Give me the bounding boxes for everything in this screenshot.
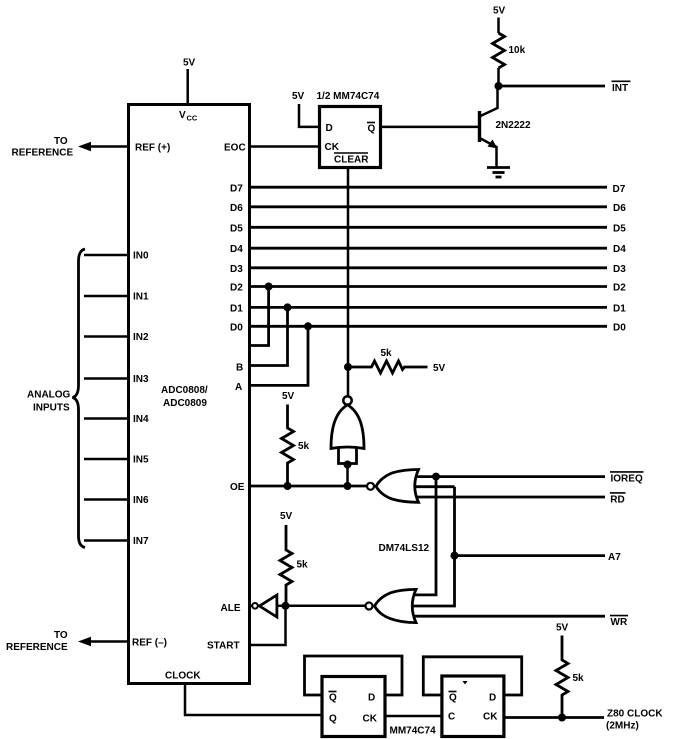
junction CLEAR pull-up node xyxy=(344,363,352,371)
wire data bus line D7 xyxy=(250,186,607,189)
svg-text:TO: TO xyxy=(54,630,68,641)
svg-text:D7: D7 xyxy=(230,184,243,195)
svg-text:REF (+): REF (+) xyxy=(135,143,170,154)
wire analog input IN3 xyxy=(84,377,129,380)
wire RD line xyxy=(412,496,605,499)
svg-text:Q: Q xyxy=(449,693,457,704)
svg-text:IN1: IN1 xyxy=(133,292,149,303)
svg-text:5k: 5k xyxy=(573,673,585,684)
resistor R5 5k (Z80 clock pull-up) xyxy=(556,636,584,718)
5V supply at VCC xyxy=(183,58,196,69)
svg-text:D6: D6 xyxy=(613,203,626,214)
wire analog input IN4 xyxy=(84,417,129,420)
svg-text:2N2222: 2N2222 xyxy=(496,120,531,131)
wire IOREQ down to gate U5 xyxy=(412,477,436,595)
svg-text:INT: INT xyxy=(612,83,628,94)
node label TO REFERENCE (top) xyxy=(12,136,74,159)
arrow to reference (top) xyxy=(78,142,91,151)
wire D1 to address pin B xyxy=(250,307,288,365)
ground at Q1 emitter xyxy=(487,168,510,178)
ADC U1 ADC0808/ADC0809 body xyxy=(129,105,250,684)
wire REF (+) to reference arrow xyxy=(89,145,129,148)
svg-text:Q: Q xyxy=(329,693,337,704)
wire 5V to VCC xyxy=(186,69,189,105)
wire U7 feedback Q-bar to D xyxy=(305,656,403,695)
junction A7 node xyxy=(451,552,459,560)
svg-text:5k: 5k xyxy=(297,560,309,571)
wire analog input IN1 xyxy=(84,295,129,298)
wire REF (-) to reference arrow xyxy=(89,640,129,643)
wire analog input IN5 xyxy=(84,458,129,461)
svg-text:IN4: IN4 xyxy=(133,414,149,425)
node label ANALOG INPUTS xyxy=(27,390,71,414)
wire Q-bar to transistor base xyxy=(381,126,479,129)
svg-text:REF (–): REF (–) xyxy=(132,638,167,649)
gate U4 DM74LS12 (OE decoder) xyxy=(367,470,419,503)
resistor R3 5k (OE pull-up) xyxy=(282,405,310,487)
clock edge mark (U8) xyxy=(463,681,468,685)
svg-text:5V: 5V xyxy=(556,623,569,634)
wire 5V to resistor R1 xyxy=(497,18,500,34)
svg-text:START: START xyxy=(207,641,240,652)
svg-text:D2: D2 xyxy=(613,283,626,294)
wire ALE node to START xyxy=(250,606,286,645)
transistor Q1 2N2222 xyxy=(480,86,531,167)
svg-text:5k: 5k xyxy=(298,441,310,452)
svg-text:C: C xyxy=(448,712,455,723)
pin label Q-bar (U7) xyxy=(329,692,338,704)
wire data bus line D1 xyxy=(250,306,607,309)
node label TO REFERENCE (bottom) xyxy=(6,630,68,653)
flip-flop U2 1/2 MM74C74 label xyxy=(292,91,380,102)
svg-text:D: D xyxy=(368,693,375,704)
net label IOREQ xyxy=(610,472,644,485)
svg-text:5V: 5V xyxy=(292,91,305,102)
wire WR line xyxy=(412,615,605,618)
svg-text:CLOCK: CLOCK xyxy=(165,671,201,682)
svg-text:D4: D4 xyxy=(230,244,243,255)
svg-text:D: D xyxy=(489,693,496,704)
junction OE pull-up xyxy=(284,482,292,490)
svg-text:CK: CK xyxy=(325,142,340,153)
svg-text:IN0: IN0 xyxy=(133,251,149,262)
svg-text:EOC: EOC xyxy=(224,143,246,154)
svg-text:ALE: ALE xyxy=(221,603,241,614)
svg-text:D5: D5 xyxy=(230,223,243,234)
flip-flop U7 MM74C74 body xyxy=(322,677,385,737)
wire analog input IN6 xyxy=(84,498,129,501)
svg-text:1/2 MM74C74: 1/2 MM74C74 xyxy=(317,91,380,102)
svg-text:REFERENCE: REFERENCE xyxy=(12,148,74,159)
wire data bus line D5 xyxy=(250,226,607,229)
wire analog input IN0 xyxy=(84,254,129,257)
wire A7 vertical xyxy=(412,487,455,606)
gate U5 DM74LS12 (START decoder) xyxy=(366,589,417,622)
svg-text:RD: RD xyxy=(610,495,624,506)
wire D2 to address pin C xyxy=(250,287,269,346)
NAND gate U3 (inverter-wired, output up) xyxy=(331,396,364,486)
svg-text:D1: D1 xyxy=(613,303,626,314)
wire 5V to D input of U2 xyxy=(299,104,320,127)
wire U8 CK to Z80 clock xyxy=(504,716,604,719)
wire CLEAR to NAND output xyxy=(347,168,350,397)
wire ADC CLOCK to U7 Q xyxy=(185,684,322,715)
flip-flop U2 body xyxy=(320,107,381,168)
svg-text:5V: 5V xyxy=(433,363,446,374)
svg-text:D: D xyxy=(326,123,333,134)
svg-text:D3: D3 xyxy=(613,264,626,275)
svg-text:IN2: IN2 xyxy=(133,332,149,343)
svg-text:IN6: IN6 xyxy=(133,495,149,506)
svg-text:OE: OE xyxy=(230,482,245,493)
pin label Q-bar (U2) xyxy=(367,123,376,135)
junction Z80 clock node xyxy=(558,714,566,722)
wire data bus line D6 xyxy=(250,205,607,208)
pin label CLEAR (U2) xyxy=(334,153,369,166)
wire EOC to flip-flop CK xyxy=(250,145,320,148)
wire U7 CK to U8 C xyxy=(385,715,442,718)
flip-flop U8 MM74C74 body xyxy=(442,676,504,737)
svg-text:MM74C74: MM74C74 xyxy=(390,726,437,737)
wire analog input IN7 xyxy=(84,539,129,542)
svg-text:A7: A7 xyxy=(608,552,621,563)
wire data bus line D4 xyxy=(250,247,607,250)
svg-text:INPUTS: INPUTS xyxy=(33,403,70,414)
wire INT line xyxy=(499,85,606,88)
svg-text:5V: 5V xyxy=(280,511,293,522)
svg-text:D0: D0 xyxy=(613,322,626,333)
svg-text:10k: 10k xyxy=(509,45,526,56)
svg-text:IN5: IN5 xyxy=(133,455,149,466)
svg-text:IN7: IN7 xyxy=(133,536,149,547)
svg-text:D1: D1 xyxy=(230,303,243,314)
resistor R2 5k (horizontal) xyxy=(348,348,428,373)
wire data bus line D0 xyxy=(250,325,607,328)
svg-text:CC: CC xyxy=(187,114,198,123)
svg-text:5V: 5V xyxy=(493,6,506,17)
wire D0 to address pin A xyxy=(250,326,308,385)
svg-text:D0: D0 xyxy=(230,322,243,333)
svg-text:WR: WR xyxy=(611,617,628,628)
svg-text:IN3: IN3 xyxy=(133,374,149,385)
svg-text:D4: D4 xyxy=(613,244,626,255)
wire OE line xyxy=(250,485,367,488)
svg-text:ADC0808/: ADC0808/ xyxy=(161,385,208,396)
wire U5 output to ALE node xyxy=(277,605,366,608)
wire R1 to INT node xyxy=(497,68,500,86)
junction on D0 xyxy=(304,322,312,330)
svg-text:CLEAR: CLEAR xyxy=(334,155,369,166)
svg-text:Z80 CLOCK: Z80 CLOCK xyxy=(607,709,663,720)
resistor R4 5k (ALE pull-up) xyxy=(280,525,308,606)
inverter U6 at ALE xyxy=(250,595,277,617)
svg-text:V: V xyxy=(179,110,186,121)
resistor R1 10k xyxy=(493,33,526,68)
svg-text:D7: D7 xyxy=(613,184,626,195)
svg-text:ANALOG: ANALOG xyxy=(27,390,71,401)
junction IOREQ node xyxy=(432,473,440,481)
svg-text:D3: D3 xyxy=(230,264,243,275)
junction on D2 xyxy=(265,283,273,291)
svg-text:TO: TO xyxy=(54,136,68,147)
svg-text:(2MHz): (2MHz) xyxy=(606,721,639,732)
junction INT node xyxy=(495,82,503,90)
svg-text:Q: Q xyxy=(329,714,337,725)
pin label VCC xyxy=(179,110,198,123)
svg-text:DM74LS12: DM74LS12 xyxy=(379,543,430,554)
wire gate U4 middle input from A7 xyxy=(410,485,455,488)
junction OE / NAND input xyxy=(344,482,352,490)
junction on D1 xyxy=(284,303,292,311)
net label INT xyxy=(612,81,631,94)
svg-text:ADC0809: ADC0809 xyxy=(163,398,207,409)
svg-text:5V: 5V xyxy=(183,58,196,69)
wire IOREQ line xyxy=(412,475,605,478)
svg-text:B: B xyxy=(236,363,243,374)
wire A7 line xyxy=(455,554,606,557)
pin label Q-bar (U8) xyxy=(449,692,458,704)
arrow to reference (bottom) xyxy=(78,637,91,646)
net label WR xyxy=(610,616,628,628)
svg-text:5k: 5k xyxy=(381,348,393,359)
wire U8 feedback Q-bar to D xyxy=(423,657,521,695)
svg-text:D6: D6 xyxy=(230,203,243,214)
svg-text:Q: Q xyxy=(368,124,376,135)
svg-text:D2: D2 xyxy=(230,283,243,294)
svg-text:IOREQ: IOREQ xyxy=(611,474,643,485)
wire data bus line D2 xyxy=(250,285,607,288)
svg-text:5V: 5V xyxy=(282,391,295,402)
wire data bus line D3 xyxy=(250,266,607,269)
svg-text:A: A xyxy=(235,382,242,393)
svg-text:CK: CK xyxy=(483,712,498,723)
junction ALE node xyxy=(282,602,290,610)
net label Z80 CLOCK (2MHz) xyxy=(606,709,663,732)
svg-text:D5: D5 xyxy=(613,223,626,234)
wire analog input IN2 xyxy=(84,335,129,338)
net label RD xyxy=(610,493,626,506)
svg-text:CK: CK xyxy=(363,714,378,725)
brace for analog inputs xyxy=(73,249,86,548)
svg-text:REFERENCE: REFERENCE xyxy=(6,642,68,653)
